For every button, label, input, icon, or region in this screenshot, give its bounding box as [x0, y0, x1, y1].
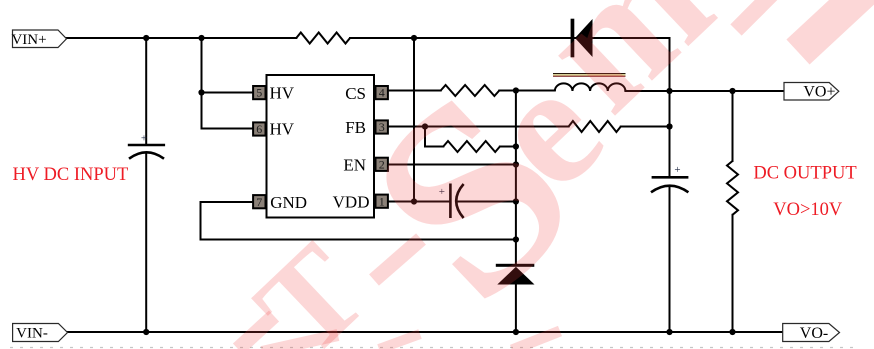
svg-text:GND: GND [270, 193, 307, 212]
svg-text:7: 7 [256, 195, 262, 209]
svg-text:HV: HV [270, 119, 295, 138]
svg-text:6: 6 [256, 122, 262, 136]
svg-text:VO>10V: VO>10V [773, 200, 843, 220]
svg-text:+: + [141, 133, 147, 145]
svg-text:+: + [674, 164, 680, 176]
svg-text:HV: HV [270, 83, 295, 102]
svg-text:VIN-: VIN- [16, 326, 48, 342]
svg-text:VO-: VO- [800, 325, 828, 342]
svg-text:5: 5 [256, 86, 262, 100]
svg-text:VDD: VDD [333, 192, 370, 211]
svg-text:VO+: VO+ [803, 84, 835, 101]
svg-text:HV DC INPUT: HV DC INPUT [13, 165, 129, 185]
svg-text:VIN+: VIN+ [11, 32, 46, 48]
svg-text:DC OUTPUT: DC OUTPUT [753, 164, 856, 184]
